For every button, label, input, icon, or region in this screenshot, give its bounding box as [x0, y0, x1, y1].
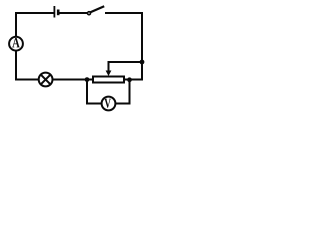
voltmeter label V	[104, 99, 111, 108]
switch S lever (open)	[90, 6, 104, 12]
lamp L1 cross stroke 2	[41, 75, 50, 84]
junction node right of rheostat	[127, 77, 132, 82]
wire switch to top-right corner	[105, 12, 143, 14]
wire bottom-left horizontal	[15, 79, 39, 81]
battery cell short thick plate	[57, 10, 60, 16]
wire wiper branch horizontal	[109, 61, 143, 63]
wire lamp to rheostat	[53, 79, 93, 81]
voltmeter V1 circle	[102, 97, 116, 111]
wire voltmeter right riser	[129, 80, 131, 104]
rheostat R1 body	[93, 77, 124, 83]
wire battery to switch	[60, 12, 89, 14]
wire top-left horizontal	[15, 12, 54, 14]
junction node left of rheostat	[85, 77, 90, 82]
ammeter label A	[12, 38, 20, 47]
wire left vertical upper	[15, 12, 17, 37]
ammeter A1 circle	[9, 37, 23, 51]
battery cell long plate	[53, 6, 55, 18]
wire rheostat to right corner	[125, 79, 143, 81]
switch S pivot	[88, 12, 91, 15]
junction node at wiper tap on right wire	[140, 60, 145, 65]
wire voltmeter bottom-left horizontal	[86, 103, 102, 105]
wire left vertical lower	[15, 51, 17, 81]
wire wiper branch vertical	[108, 61, 110, 71]
wire voltmeter left drop	[86, 80, 88, 105]
lamp L1 circle	[39, 73, 53, 87]
lamp L1 cross stroke 1	[41, 75, 50, 84]
wire right vertical	[141, 12, 143, 81]
rheostat wiper arrowhead	[106, 71, 112, 77]
wire voltmeter bottom-right horizontal	[115, 103, 130, 105]
